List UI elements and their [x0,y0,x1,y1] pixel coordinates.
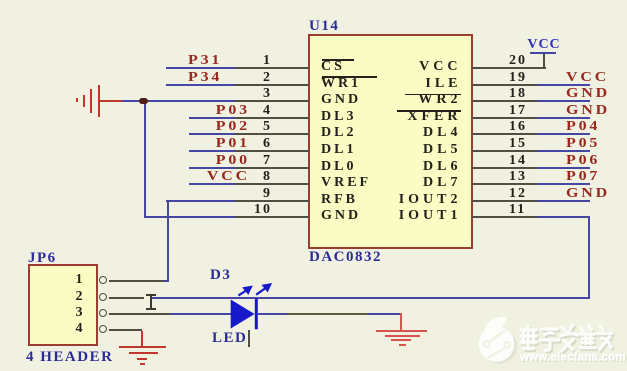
svg-text:www.elecfans.com: www.elecfans.com [519,352,626,364]
